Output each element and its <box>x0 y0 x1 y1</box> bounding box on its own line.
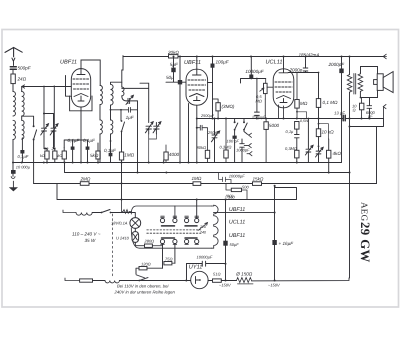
bus1 y162 <box>13 162 341 164</box>
bus2 y172.5 <box>65 163 350 173</box>
mains choke upper <box>76 213 92 216</box>
resistor 75ohm <box>164 262 172 265</box>
bus3 y183.5 <box>34 183 377 185</box>
capacitor 2000pF electrolytic right <box>341 57 343 69</box>
svg-text:Ω: Ω <box>353 108 356 113</box>
svg-text:Ø 150Ω: Ø 150Ω <box>235 272 253 277</box>
svg-text:280Ω: 280Ω <box>144 238 155 243</box>
bus4 y199.5 <box>57 184 297 200</box>
wire switch to buses <box>121 134 123 200</box>
svg-text:5kΩ: 5kΩ <box>90 153 99 158</box>
lamp U2410 <box>134 228 136 231</box>
grid node wire <box>241 79 266 84</box>
svg-text:500pF: 500pF <box>18 66 32 71</box>
wave switch Sa <box>235 119 238 136</box>
svg-text:kΩ: kΩ <box>58 154 63 158</box>
capacitor C-ant 500pF <box>10 67 16 69</box>
wires trimmers to bus1 <box>149 134 157 163</box>
resistor 120ohm <box>139 267 147 270</box>
svg-text:UCL11: UCL11 <box>229 219 245 225</box>
AVC junction vertical <box>53 87 55 148</box>
tube UY11 <box>191 271 208 288</box>
svg-text:~150V: ~150V <box>219 282 231 287</box>
phono arrow a <box>247 133 252 137</box>
svg-text:20kΩ: 20kΩ <box>167 50 179 55</box>
speaker bottom wire <box>361 90 378 97</box>
resistor (3M) vertical <box>216 103 220 111</box>
dial lamp 18V <box>130 218 141 229</box>
wire 318 to 328 link <box>319 124 329 139</box>
capacitor cathode tube2 <box>197 125 208 150</box>
tube UCL11 envelope <box>273 69 294 108</box>
IF coil 1 lower <box>100 120 102 134</box>
phono return wire y126 <box>350 119 384 184</box>
UY11 plate feed <box>187 264 203 281</box>
junction dots bottom <box>121 172 276 282</box>
svg-text:~150V: ~150V <box>268 282 280 287</box>
tube2 anode <box>193 69 202 75</box>
transformer core <box>354 74 356 95</box>
heater zigzag into drum <box>122 200 132 214</box>
svg-text:18V/0,1A: 18V/0,1A <box>111 221 128 226</box>
capacitor 10000pF uy <box>198 261 226 266</box>
svg-text:50µF: 50µF <box>230 242 240 247</box>
wire UY11 to resistor <box>208 280 212 282</box>
svg-text:2000p: 2000p <box>289 67 303 72</box>
resistor 24ohm <box>11 74 15 84</box>
tube2 left pin wire <box>188 104 190 163</box>
svg-text:80kΩ: 80kΩ <box>197 145 207 150</box>
svg-text:kΩ: kΩ <box>40 154 45 158</box>
svg-text:110 – 240 V ~: 110 – 240 V ~ <box>72 232 101 237</box>
capacitor 0,1uF a <box>72 140 74 163</box>
wire to choke lower <box>93 280 106 282</box>
tone trimmer cap <box>305 119 313 163</box>
capacitor 100pF top <box>208 57 213 83</box>
selector dashed rows <box>147 230 201 233</box>
svg-text:UBF11: UBF11 <box>229 207 245 213</box>
capacitor 10000pF to ground <box>12 163 14 170</box>
svg-text:250µµF: 250µµF <box>251 115 266 120</box>
capacitor 100pF b dark <box>233 136 237 139</box>
mains choke lower <box>105 281 119 283</box>
svg-text:13 µF: 13 µF <box>334 110 345 115</box>
capacitor 0,1uF b <box>87 140 89 163</box>
svg-text:1MΩ: 1MΩ <box>192 176 202 181</box>
IF coil 1 <box>100 85 102 104</box>
capacitor 1000pF <box>240 139 244 163</box>
trimmer capacitor T2 <box>50 114 58 137</box>
UCL11 cathode <box>280 99 287 103</box>
heater chain vertical <box>225 200 227 241</box>
wire choke to UY11 <box>119 280 191 282</box>
svg-text:Bei 110V in den oberen, bei: Bei 110V in den oberen, bei <box>117 284 169 289</box>
junction dots mid <box>173 56 351 164</box>
tube2 grids dashed <box>188 79 206 81</box>
mains switch upper <box>102 210 134 213</box>
resistor 10ohm output <box>360 103 364 110</box>
voltage selector pins bottom <box>160 239 198 243</box>
svg-text:U 2410: U 2410 <box>116 236 130 241</box>
svg-text:24Ω: 24Ω <box>17 77 27 82</box>
selector arrow <box>198 223 208 231</box>
bias network cap 10000 <box>219 173 232 184</box>
top bus left segment <box>123 56 169 58</box>
resistor 80k vertical <box>205 150 209 158</box>
svg-text:15kΩ: 15kΩ <box>253 177 264 182</box>
resistor 5k <box>96 151 100 159</box>
svg-text:(3MΩ): (3MΩ) <box>222 104 235 109</box>
trimmer feed node <box>44 87 54 114</box>
wire T2 down <box>54 137 55 152</box>
phono arrow b <box>244 144 251 148</box>
tube1 grids dashed <box>73 78 89 80</box>
capacitor 6000 <box>367 98 372 119</box>
svg-text:35 W: 35 W <box>85 238 96 243</box>
svg-text:220: 220 <box>199 225 206 229</box>
wire caps top <box>64 140 87 148</box>
voltage selector pins top <box>160 218 198 222</box>
svg-text:500: 500 <box>242 185 249 190</box>
bias resistor 500 <box>231 188 241 191</box>
junction 340.8 bus1 <box>341 162 343 164</box>
wire to lamp <box>133 213 135 218</box>
svg-text:2000pF: 2000pF <box>328 62 346 67</box>
resistor 1M on bus3 <box>193 182 201 186</box>
connector hook <box>11 177 15 179</box>
svg-text:0,1µF: 0,1µF <box>83 138 96 143</box>
wire 100pF down to mid bus <box>212 83 214 118</box>
speaker <box>377 74 383 91</box>
bus end arrow <box>383 54 387 59</box>
wire coil3 bottom to trimmer <box>122 96 127 101</box>
svg-text:0,3MΩ: 0,3MΩ <box>285 146 297 151</box>
svg-text:+ 16µF: + 16µF <box>279 241 295 246</box>
UCL11 anode top <box>279 69 288 73</box>
svg-text:20: 20 <box>51 147 57 151</box>
wire to switch <box>92 212 101 214</box>
resistor 20k horizontal top <box>169 55 179 58</box>
wire to right corner <box>252 278 349 281</box>
resistor 0,1M right <box>316 99 320 108</box>
resistor 4k <box>327 150 331 158</box>
capacitor 5uF electrolytic <box>173 57 175 68</box>
resistor 40k <box>62 151 66 159</box>
svg-text:10 000µ: 10 000µ <box>16 165 31 170</box>
output transformer secondary <box>359 73 361 74</box>
mains lead upper <box>63 210 76 213</box>
resistor 280ohm <box>145 244 153 247</box>
svg-text:0,1µF: 0,1µF <box>104 148 117 153</box>
mid bus y117.7 <box>197 118 384 120</box>
IF coil 2 lower <box>111 120 113 134</box>
trimmer padder cap <box>126 95 137 104</box>
speaker magnet <box>374 80 378 85</box>
UCL11 bottom wires <box>279 105 284 119</box>
tube UBF11 no1 envelope <box>71 69 90 107</box>
phono arrow c <box>247 152 252 156</box>
wire L2 top to AVC line <box>21 86 23 91</box>
svg-text:MΩ: MΩ <box>256 99 262 104</box>
AVC wire with arrow <box>22 85 72 88</box>
ground symbol <box>12 181 14 187</box>
svg-text:120Ω: 120Ω <box>141 262 151 267</box>
wire pin2 stub <box>174 206 176 218</box>
wire L2 bottom to cap <box>21 138 23 150</box>
UCL11 grids <box>275 81 292 83</box>
svg-text:µF: µF <box>368 113 373 118</box>
switch under coil3 <box>121 110 125 134</box>
svg-text:10000µF: 10000µF <box>197 254 213 259</box>
barretter zigzag 150ohm <box>237 278 254 284</box>
capacitor 50uF electrolytic <box>179 57 181 80</box>
svg-text:AEG: AEG <box>360 202 370 222</box>
resistor mains lower <box>80 279 93 282</box>
svg-text:0,1 MΩ: 0,1 MΩ <box>323 100 338 105</box>
resistor 5000 cathode <box>264 122 268 130</box>
svg-text:10 kΩ: 10 kΩ <box>322 129 335 134</box>
svg-text:240V in der unteren Reihe lege: 240V in der unteren Reihe legen <box>114 290 176 295</box>
output transformer primary <box>349 57 351 75</box>
cap 16uF electrolytic <box>274 186 276 240</box>
svg-text:1µF: 1µF <box>126 115 135 120</box>
wire L1 bottom to bus1 <box>12 140 14 163</box>
svg-text:50µ: 50µ <box>166 75 174 80</box>
tube1 plate wire to top <box>81 60 100 85</box>
svg-text:51Ω: 51Ω <box>213 272 221 277</box>
capacitor 0,1uF mid <box>109 153 113 157</box>
wire T1 to bus1 <box>44 137 47 152</box>
tube2 cathode <box>194 97 201 101</box>
svg-text:5000: 5000 <box>269 123 280 128</box>
svg-text:UBF11: UBF11 <box>184 60 201 66</box>
resistor 0,3M vertical <box>224 150 228 158</box>
selector contact bars <box>162 226 198 238</box>
gang dashes <box>112 214 114 276</box>
mains lead lower <box>65 278 80 281</box>
UCL11 plate wire up to bus <box>283 57 285 69</box>
wire lamp to resistor <box>135 242 144 245</box>
svg-text:2MΩ: 2MΩ <box>80 177 91 182</box>
tube2 bottom wire <box>196 105 198 162</box>
resistor 0,3M low <box>295 150 299 158</box>
tube2 plate to top bus <box>196 57 198 70</box>
resistor below bus 296 <box>295 122 299 130</box>
capacitor 13uF series electrolytic <box>343 115 345 121</box>
capacitor 0,1uF left dark <box>20 150 24 154</box>
svg-text:1000pF: 1000pF <box>236 148 250 153</box>
svg-text:10000µF: 10000µF <box>245 69 264 74</box>
trimmer capacitor T1 <box>41 114 49 137</box>
wire drum to 16uF line <box>214 212 275 214</box>
coil L2 lower section <box>22 120 24 139</box>
coil L1 lower section <box>13 120 15 139</box>
resistor 20k <box>53 151 57 159</box>
svg-text:75Ω: 75Ω <box>165 256 173 261</box>
svg-text:UY11: UY11 <box>189 264 203 270</box>
capacitor 250pF <box>255 79 260 119</box>
svg-text:29 GW: 29 GW <box>358 222 372 263</box>
svg-text:185/42mA: 185/42mA <box>299 53 320 58</box>
svg-text:5µF: 5µF <box>170 62 179 67</box>
UY11 cathode bar <box>196 277 200 284</box>
tube UBF11 no2 envelope <box>186 69 208 105</box>
osc trimmer 1 <box>145 122 153 134</box>
resistor 1M vertical <box>119 152 123 160</box>
svg-text:10000µF: 10000µF <box>229 174 245 179</box>
wire <box>12 69 14 74</box>
svg-text:0,3MΩ: 0,3MΩ <box>220 145 232 150</box>
antenna <box>5 48 22 57</box>
vertical from bus y56 to coil assembly <box>122 56 123 83</box>
resistor 2M on bus3 <box>80 182 89 186</box>
osc trimmer 2 <box>153 122 161 134</box>
coil L2 (antenna coil secondary) <box>22 92 24 117</box>
wave switch Sb <box>244 119 247 134</box>
svg-text:2500µF: 2500µF <box>200 114 215 118</box>
wire pin4 to bus4 <box>196 200 198 219</box>
coil L1 (antenna coil upper) <box>13 92 15 117</box>
svg-text:MΩ: MΩ <box>300 101 308 106</box>
resistor 30k <box>45 151 49 159</box>
svg-text:0,5W: 0,5W <box>300 119 309 123</box>
top bus right of resistor <box>178 56 383 58</box>
resistor 15k on bus3 <box>253 182 262 186</box>
svg-text:1MΩ: 1MΩ <box>124 153 134 158</box>
svg-text:UBF11: UBF11 <box>60 60 77 66</box>
capacitor series in wire <box>111 107 138 112</box>
svg-text:0,1µF: 0,1µF <box>68 138 81 143</box>
drum outline <box>131 206 211 248</box>
capacitor 10000pF UCL grid <box>250 57 252 75</box>
band switch S1 <box>34 130 37 184</box>
vertical right of coil assembly <box>137 101 139 173</box>
svg-text:UBF11: UBF11 <box>229 233 245 239</box>
svg-text:0,1µF: 0,1µF <box>18 154 29 159</box>
svg-text:240: 240 <box>199 231 206 235</box>
svg-text:4kΩ: 4kΩ <box>333 151 342 156</box>
resistor 10k right <box>316 129 320 137</box>
volume pot 0,5M <box>264 83 268 93</box>
long vertical right x349 <box>349 119 351 279</box>
resistor 4000 vertical <box>164 152 168 160</box>
wire <box>221 280 236 282</box>
resistor 1M ucl <box>295 100 299 109</box>
tube1 cathode <box>78 96 84 101</box>
coil link to switch <box>22 116 34 126</box>
pins bottom wires <box>163 244 175 269</box>
svg-text:250pF: 250pF <box>207 130 220 135</box>
svg-text:100µF: 100µF <box>216 59 230 64</box>
IF coil 2 <box>111 84 114 105</box>
plate rc wire y72.5 <box>288 72 318 74</box>
wire coil3 top <box>111 82 122 87</box>
tube1 bottom wire <box>80 107 82 163</box>
AVC line y88.4 <box>122 83 149 122</box>
svg-text:160: 160 <box>228 194 235 199</box>
wire <box>12 84 14 92</box>
tube1 diode line <box>66 76 72 97</box>
wire 1M tap <box>297 112 307 119</box>
svg-text:UCL11: UCL11 <box>266 60 283 66</box>
tube1 shield box <box>70 96 92 111</box>
IF coil 3 small <box>122 87 124 96</box>
svg-text:100 pF: 100 pF <box>227 139 240 144</box>
resistor 51ohm <box>213 279 222 282</box>
antenna arrow into capacitor <box>12 58 15 66</box>
phono input arrow right <box>383 105 386 119</box>
selector right bumps <box>212 205 219 248</box>
tube1 anode <box>77 69 85 75</box>
svg-text:4000: 4000 <box>169 152 180 157</box>
svg-text:0,1µ: 0,1µ <box>286 129 295 134</box>
junction dots right <box>318 72 371 174</box>
secondary top wire to speaker <box>361 67 378 74</box>
model name AEG 29 GW <box>358 202 372 263</box>
junction dots bus1 <box>12 86 165 164</box>
